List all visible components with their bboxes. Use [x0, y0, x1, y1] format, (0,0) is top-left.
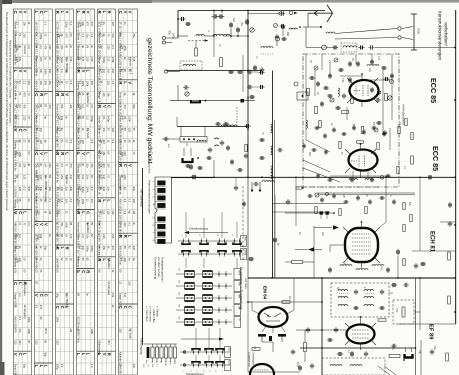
cluster above ECH81 [308, 194, 311, 198]
switch group G3 [180, 351, 230, 353]
svg-text:100k: 100k [81, 199, 85, 205]
svg-text:470: 470 [65, 33, 69, 38]
svg-text:210: 210 [23, 116, 27, 121]
svg-text:0,1: 0,1 [128, 222, 132, 226]
UKW interior wires [305, 54, 307, 140]
svg-text:25u: 25u [99, 140, 102, 145]
wire right rail x455 [455, 10, 457, 324]
svg-text:Gerätetypen m. U: Gerätetypen m. U [252, 352, 255, 371]
tube V5 EM84 [259, 307, 288, 327]
svg-text:0,3: 0,3 [60, 199, 64, 203]
vertical line x214 to resistor [213, 36, 215, 57]
capacitor trimmer Mst1 [229, 24, 233, 25]
svg-text:30p: 30p [57, 199, 60, 204]
svg-text:500p: 500p [86, 246, 90, 252]
svg-text:L: L [34, 11, 39, 14]
svg-text:0,5M: 0,5M [164, 361, 166, 366]
tuning dashed arrow [188, 40, 208, 42]
svg-text:R: R [106, 353, 111, 356]
blobs La Lb [187, 164, 188, 168]
svg-text:R: R [106, 11, 111, 14]
svg-text:Hornsteckbuchse: Hornsteckbuchse [148, 151, 152, 174]
svg-text:Kontaktanordnung: Kontaktanordnung [154, 257, 158, 279]
svg-text:Regel -8,5V: Regel -8,5V [118, 293, 122, 307]
svg-text:210: 210 [57, 81, 60, 86]
svg-text:100k: 100k [65, 222, 69, 228]
svg-text:300: 300 [44, 81, 48, 86]
svg-text:von oben: von oben [244, 278, 248, 289]
svg-text:10n: 10n [81, 22, 85, 27]
svg-text:0,3: 0,3 [90, 187, 94, 191]
svg-text:V: V [34, 294, 39, 297]
svg-text:125: 125 [13, 340, 17, 345]
svg-text:100k: 100k [86, 187, 90, 193]
svg-text:500p: 500p [36, 175, 39, 181]
svg-text:210: 210 [107, 69, 111, 74]
svg-text:gezeichnete Tastenstellung: MW: gezeichnete Tastenstellung: MW gedrückt [146, 38, 153, 164]
svg-text:100k: 100k [86, 81, 90, 87]
svg-text:Bei Abweichungen der Sollspann: Bei Abweichungen der Sollspannungen und … [5, 12, 9, 211]
scan edge left [0, 0, 2, 375]
svg-text:1M: 1M [69, 175, 73, 179]
svg-text:0,3: 0,3 [111, 140, 115, 144]
svg-text:L: L [76, 11, 81, 14]
svg-text:C: C [18, 211, 23, 214]
svg-text:1M: 1M [123, 293, 127, 297]
svg-text:210: 210 [36, 104, 39, 109]
V3 left pin wires [330, 244, 345, 246]
svg-text:0,1: 0,1 [60, 364, 64, 368]
capacitor trimmer Mst2 [236, 29, 240, 30]
svg-text:62k: 62k [173, 361, 175, 364]
right column detail blobs [385, 77, 386, 81]
caps hanging from rail y177 [192, 175, 193, 179]
G2 row LW label box [234, 305, 241, 316]
trimmer circle [250, 28, 254, 32]
svg-text:V: V [64, 11, 69, 14]
EM84 pins [252, 310, 259, 314]
svg-text:210: 210 [39, 175, 43, 180]
table strip 4 [77, 9, 95, 375]
svg-text:1k: 1k [155, 361, 157, 363]
svg-text:47k lin.: 47k lin. [118, 187, 122, 195]
svg-text:125: 125 [48, 45, 52, 50]
svg-text:Heizung 6,3V: Heizung 6,3V [76, 258, 80, 274]
svg-text:C: C [34, 152, 39, 155]
svg-text:10n: 10n [107, 187, 111, 192]
G1 row 1 label box [241, 236, 247, 247]
svg-text:Netz: Netz [228, 361, 231, 366]
svg-text:BF II: BF II [44, 328, 48, 334]
svg-text:210: 210 [111, 234, 115, 239]
svg-text:500p: 500p [36, 234, 39, 240]
svg-text:100k: 100k [27, 328, 31, 334]
svg-text:300: 300 [15, 151, 18, 156]
svg-text:240Ω: 240Ω [172, 33, 175, 39]
svg-text:210: 210 [107, 45, 111, 50]
terminal circle AM ant [164, 70, 167, 73]
svg-text:47k lin.: 47k lin. [55, 175, 59, 183]
UKW interior resistors [307, 88, 310, 96]
svg-text:30p: 30p [57, 33, 60, 38]
svg-text:470: 470 [23, 92, 27, 97]
cap pair mid [217, 122, 218, 126]
wires around ECH81 [272, 211, 330, 213]
capacitor blob UKW top 1 [334, 46, 335, 50]
svg-text:125: 125 [132, 57, 136, 62]
svg-text:100k: 100k [78, 22, 81, 28]
svg-text:25u: 25u [99, 210, 102, 215]
svg-text:Skalenlampe: Skalenlampe [97, 340, 101, 356]
svg-text:V: V [39, 152, 44, 155]
tube V4 EF89 [347, 325, 375, 344]
svg-text:470k: 470k [296, 362, 298, 368]
B1 caps [354, 290, 358, 292]
svg-text:C: C [34, 93, 39, 96]
cap cluster left mid y185 [251, 182, 253, 190]
svg-text:Mst: Mst [232, 18, 235, 22]
switch group G2 [176, 273, 232, 275]
EM84 contact blobs [258, 334, 266, 337]
svg-text:1M: 1M [288, 296, 291, 299]
svg-text:30p: 30p [69, 187, 73, 192]
svg-text:Ratio 6,8k: Ratio 6,8k [118, 92, 122, 104]
svg-text:10n: 10n [102, 92, 106, 97]
black bracket bottom right [405, 354, 413, 358]
svg-text:220: 220 [55, 340, 59, 345]
svg-text:25u: 25u [86, 33, 90, 38]
double wire y193 [320, 192, 415, 194]
svg-text:25u: 25u [132, 33, 136, 38]
resistor x286 y302 [282, 301, 290, 304]
V6 internals [255, 369, 269, 371]
bandfilter dashed box B1 [331, 283, 389, 317]
svg-text:210: 210 [102, 187, 106, 192]
svg-text:BF I: BF I [107, 340, 111, 345]
svg-text:300: 300 [123, 258, 127, 263]
svg-text:100k: 100k [15, 57, 18, 63]
svg-text:g2 85V 7mA: g2 85V 7mA [55, 140, 59, 155]
svg-text:0,1: 0,1 [18, 317, 22, 321]
svg-text:1M: 1M [18, 163, 22, 167]
G2 row MW label box [234, 293, 241, 304]
svg-text:Ster: Ster [228, 348, 231, 352]
junction dots [247, 10, 249, 12]
wire rail y177 [171, 176, 456, 178]
svg-text:25u: 25u [86, 163, 90, 168]
svg-text:ECC 85: ECC 85 [429, 78, 438, 103]
svg-text:220: 220 [99, 69, 102, 74]
antenna symbol [308, 5, 333, 22]
svg-text:Aus: Aus [145, 360, 148, 363]
svg-text:2,2: 2,2 [27, 45, 31, 49]
svg-text:AM: AM [321, 232, 324, 236]
svg-text:500p: 500p [90, 116, 94, 122]
table strip 5 [98, 9, 116, 375]
svg-text:UKW: UKW [238, 270, 240, 276]
svg-text:100k: 100k [55, 317, 59, 323]
svg-text:Druckplatte gesehen: Druckplatte gesehen [161, 257, 165, 282]
svg-text:125: 125 [107, 57, 111, 62]
svg-text:300: 300 [48, 69, 52, 74]
svg-text:1M: 1M [48, 210, 52, 214]
svg-text:100k: 100k [27, 317, 31, 323]
svg-text:1M: 1M [102, 175, 106, 179]
svg-text:TA: TA [238, 318, 241, 321]
svg-text:Ratiofilter: Ratiofilter [86, 222, 90, 233]
svg-text:125: 125 [18, 187, 22, 192]
svg-text:1M: 1M [99, 45, 102, 48]
svg-text:100k: 100k [120, 151, 123, 157]
capacitor C1 feedthrough [181, 17, 182, 21]
wire down right cluster [282, 31, 284, 37]
UKW extra caps [348, 79, 352, 80]
cap right edge [448, 222, 452, 224]
svg-text:Ratio 6,8k: Ratio 6,8k [13, 364, 17, 375]
wire y203.5 [272, 203, 345, 205]
svg-text:V: V [18, 11, 23, 14]
svg-text:300: 300 [39, 57, 43, 62]
svg-text:g2 85V 7mA: g2 85V 7mA [76, 199, 80, 214]
svg-text:30p: 30p [55, 293, 59, 298]
svg-text:15k: 15k [60, 222, 64, 227]
svg-text:L: L [34, 365, 39, 368]
table strip 1 [14, 9, 32, 375]
coil tapped input [213, 34, 230, 36]
dashed wire y187 [297, 186, 380, 188]
svg-text:0,1/250V: 0,1/250V [13, 187, 17, 198]
svg-text:V: V [102, 105, 107, 108]
B1 coil group 1 [338, 289, 348, 291]
wire AM ant to coil [168, 71, 180, 73]
svg-text:Netzteil: Netzteil [23, 45, 27, 54]
svg-text:125: 125 [111, 22, 115, 27]
svg-text:1M: 1M [57, 187, 60, 190]
cluster below EF89 [339, 352, 340, 356]
svg-text:2,2: 2,2 [39, 45, 43, 49]
svg-text:100k: 100k [128, 116, 132, 122]
svg-text:V: V [81, 152, 86, 155]
svg-text:R: R [39, 93, 44, 96]
IF1 wire y100.7 [170, 100, 255, 102]
tube V1 ECC85 section a [350, 80, 379, 101]
svg-text:0,3: 0,3 [90, 364, 94, 368]
tube V3 ECH81 [345, 228, 378, 262]
svg-text:500p: 500p [15, 45, 18, 51]
svg-text:30p: 30p [132, 104, 136, 109]
svg-text:100k: 100k [18, 151, 22, 157]
svg-text:10n: 10n [18, 258, 22, 263]
wire rail y129 [177, 126, 248, 128]
svg-text:R: R [85, 270, 90, 273]
svg-text:15k: 15k [60, 45, 64, 50]
svg-text:0,3: 0,3 [60, 163, 64, 167]
wire y36 second segment [178, 35, 188, 37]
cluster x230 y160 [230, 161, 234, 162]
svg-text:Schaltrichtung: Schaltrichtung [189, 227, 208, 231]
diagonal wires UKW lower [303, 160, 330, 172]
dashed vertical x237 [236, 107, 238, 126]
cluster below V2 [316, 174, 320, 177]
IF1 black bracket [191, 100, 200, 102]
svg-text:C: C [85, 211, 90, 214]
svg-text:470: 470 [39, 305, 43, 310]
terminal circles FM input [162, 36, 165, 39]
UKW Baustein dash-dot box [303, 54, 399, 187]
svg-text:10n: 10n [39, 81, 43, 86]
svg-text:100k: 100k [111, 57, 115, 63]
svg-text:220: 220 [27, 187, 31, 192]
svg-text:C: C [13, 282, 18, 285]
caption Schaltrichtung lower [181, 338, 219, 340]
svg-text:L: L [13, 70, 18, 73]
svg-text:V: V [81, 70, 86, 73]
svg-text:V: V [127, 81, 132, 84]
coil UKW top [341, 43, 357, 52]
svg-text:125: 125 [34, 340, 38, 345]
svg-text:1%: 1% [147, 364, 149, 367]
svg-text:ECH 81: ECH 81 [429, 231, 435, 253]
svg-text:Mst: Mst [240, 22, 243, 26]
UKW trimmer rings [334, 58, 338, 62]
svg-text:C: C [18, 353, 23, 356]
svg-text:680: 680 [286, 32, 289, 37]
svg-text:300: 300 [90, 81, 94, 86]
svg-text:C: C [106, 105, 111, 108]
svg-text:C: C [13, 11, 18, 14]
svg-text:125: 125 [107, 210, 111, 215]
core dots under coil [261, 53, 274, 55]
svg-text:210: 210 [102, 140, 106, 145]
IF1 lower coil on y126.5 [221, 125, 237, 127]
svg-text:0,1: 0,1 [102, 116, 106, 120]
svg-text:V: V [102, 353, 107, 356]
svg-text:V: V [18, 70, 23, 73]
svg-text:Ratio 6,8k: Ratio 6,8k [76, 128, 80, 140]
svg-text:2,2: 2,2 [123, 199, 127, 203]
table strip 6 [119, 9, 138, 375]
svg-text:UKW 88-100: UKW 88-100 [118, 364, 122, 375]
svg-text:UKW 88-100: UKW 88-100 [34, 258, 38, 273]
svg-text:V: V [64, 93, 69, 96]
resistor vertical near L6 [220, 58, 223, 67]
scan edge bottom-left [0, 362, 5, 375]
svg-text:0,3: 0,3 [69, 81, 73, 85]
svg-text:220: 220 [123, 175, 127, 180]
svg-text:500p: 500p [65, 22, 69, 28]
capacitor near coil [275, 35, 279, 37]
wire vertical x322 lower [321, 278, 323, 375]
UKW interior cluster caps [316, 83, 320, 84]
cap on rail y278 [396, 251, 400, 252]
svg-text:V: V [85, 11, 90, 14]
svg-text:0,1: 0,1 [48, 199, 52, 203]
svg-text:470: 470 [90, 199, 94, 204]
svg-text:Ratio 6,8k: Ratio 6,8k [76, 234, 80, 246]
switch column long risers [195, 328, 197, 348]
svg-text:1M: 1M [102, 69, 106, 73]
svg-text:210: 210 [86, 57, 90, 62]
terminal circle top mid [279, 12, 282, 15]
coil L1 [196, 35, 204, 36]
svg-text:30p: 30p [44, 352, 48, 357]
svg-text:125: 125 [128, 128, 132, 133]
cluster caps between triodes [315, 126, 318, 130]
coil column x272 [271, 124, 273, 133]
svg-text:210: 210 [27, 81, 31, 86]
svg-text:100k: 100k [123, 45, 127, 51]
svg-text:0,3: 0,3 [102, 210, 106, 214]
svg-text:47k: 47k [18, 328, 22, 333]
svg-text:Osz. MW-LW: Osz. MW-LW [44, 175, 48, 191]
svg-text:220: 220 [123, 222, 127, 227]
svg-text:V: V [34, 223, 39, 226]
svg-text:25u: 25u [132, 187, 136, 192]
svg-text:210: 210 [36, 210, 39, 215]
svg-text:V: V [43, 223, 48, 226]
trimmer circle in UKW [322, 45, 327, 50]
oscillator coils below ECH81 [340, 265, 352, 267]
svg-text:– = bleibt offen: – = bleibt offen [152, 306, 156, 324]
wires left mid [171, 177, 214, 179]
svg-text:AF-Eingang: AF-Eingang [107, 281, 111, 295]
grid dashes V1 [355, 86, 357, 95]
svg-text:2k: 2k [160, 361, 162, 363]
svg-text:10n: 10n [86, 175, 90, 180]
svg-text:Regel -8,5V: Regel -8,5V [97, 92, 101, 106]
cluster resistors between triodes [398, 127, 400, 134]
svg-text:210: 210 [128, 281, 132, 286]
wire y302 [248, 301, 322, 303]
IF1 junction square [241, 99, 245, 103]
svg-text:Klemmenbezeichnungen: Klemmenbezeichnungen [148, 180, 152, 214]
svg-text:470: 470 [99, 175, 102, 180]
G2 row UKW label box [234, 269, 241, 280]
svg-text:47k: 47k [69, 57, 73, 62]
svg-text:125: 125 [111, 128, 115, 133]
svg-text:1M: 1M [253, 346, 255, 349]
svg-text:470: 470 [123, 104, 127, 109]
wire dipole feeders [335, 29, 397, 34]
svg-text:C: C [81, 270, 86, 273]
svg-text:C: C [22, 129, 27, 132]
G2 row TA label box [234, 317, 241, 328]
wire x248 continues [247, 278, 249, 332]
wire top rail [178, 10, 325, 12]
svg-text:300: 300 [18, 340, 22, 345]
blob on rail y177 [428, 175, 429, 179]
EM84 resistor below [252, 348, 260, 351]
svg-text:C: C [123, 164, 128, 167]
svg-text:0,3: 0,3 [23, 187, 27, 191]
svg-text:0,3: 0,3 [18, 234, 22, 238]
svg-text:220: 220 [57, 116, 60, 121]
svg-text:210: 210 [81, 140, 85, 145]
coil above tube V1 [367, 65, 379, 67]
svg-text:470: 470 [69, 234, 73, 239]
svg-text:15k: 15k [60, 116, 64, 121]
svg-text:R: R [60, 93, 65, 96]
cluster right of L6 [253, 67, 257, 68]
svg-text:V: V [22, 11, 27, 14]
svg-text:470: 470 [69, 163, 73, 168]
diode arrow 1 [333, 225, 339, 229]
svg-text:2,2: 2,2 [23, 81, 27, 85]
svg-text:300: 300 [102, 163, 106, 168]
svg-text:500p: 500p [107, 116, 111, 122]
svg-text:C: C [123, 306, 128, 309]
svg-text:V: V [13, 353, 18, 356]
